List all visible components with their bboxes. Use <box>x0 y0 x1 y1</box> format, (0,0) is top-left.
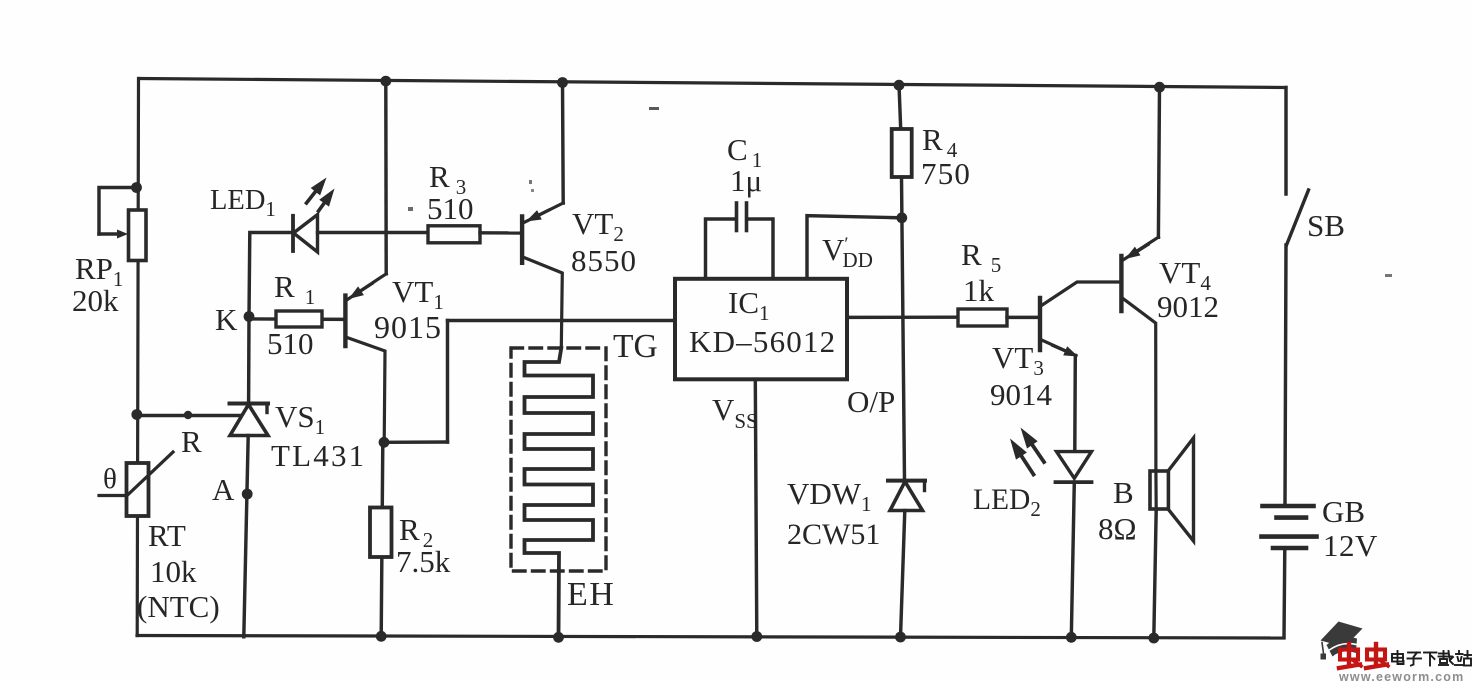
svg-text:K: K <box>215 302 238 337</box>
resistor R5 body <box>958 309 1007 326</box>
svg-text:KD–56012: KD–56012 <box>689 324 836 359</box>
wire SB lower contact <box>1285 245 1286 504</box>
wire speaker to ground <box>1154 510 1156 639</box>
wire VDD prime <box>807 216 902 278</box>
potentiometer RP1 body <box>129 210 147 261</box>
speck 3 <box>1385 274 1392 277</box>
battery GB plate1 long <box>1263 504 1314 509</box>
speaker B box <box>1150 471 1169 509</box>
svg-text:9015: 9015 <box>374 309 442 345</box>
transistor VT4 bar <box>1119 256 1123 311</box>
svg-text:θ: θ <box>103 463 117 495</box>
wire bottom ground rail <box>137 636 1284 639</box>
svg-text:9014: 9014 <box>990 377 1053 412</box>
transistor VT1 collector <box>347 338 385 443</box>
capacitor C1 plates <box>735 203 739 231</box>
node R4 rail junction <box>894 80 905 91</box>
regulator VS1 triangle <box>230 405 268 436</box>
wire VS1 anode to ground <box>244 436 248 637</box>
thermistor RT body <box>127 463 149 516</box>
svg-text:VT1: VT1 <box>392 274 444 314</box>
wire VT3 emitter to LED2 <box>1073 356 1077 452</box>
watermark chongchong char1 <box>1339 644 1361 668</box>
battery GB plate3 long <box>1262 534 1317 539</box>
node VT1 emitter rail junction <box>380 76 391 87</box>
wire battery to ground rail <box>1282 548 1286 638</box>
wire speaker through box <box>1154 471 1157 510</box>
svg-text:O/P: O/P <box>847 384 895 419</box>
node speaker ground junction <box>1148 633 1159 644</box>
watermark graduation cap <box>1321 622 1363 660</box>
svg-text:12V: 12V <box>1323 528 1378 563</box>
svg-text:A: A <box>212 472 235 507</box>
transistor VT3 bar <box>1038 298 1042 350</box>
wire VT4 emitter from rail <box>1158 87 1159 238</box>
zener VDW1 triangle <box>890 482 923 511</box>
svg-text:10k: 10k <box>150 554 197 589</box>
svg-text:510: 510 <box>267 326 314 361</box>
wire R1 leads <box>249 317 345 321</box>
node VT4 rail junction <box>1154 82 1165 93</box>
diode LED1 light arrows <box>307 192 316 203</box>
wire VDW1 anode to ground <box>901 511 905 638</box>
node divider junction <box>131 409 142 420</box>
diode LED1 triangle <box>294 215 318 252</box>
node EH ground junction <box>553 632 564 643</box>
svg-text:20k: 20k <box>72 283 119 318</box>
node VDW1 ground junction <box>895 632 906 643</box>
svg-text:GB: GB <box>1322 494 1365 529</box>
wire LED1 to R3 <box>318 231 429 234</box>
speaker B cone <box>1169 438 1194 541</box>
transistor VT3 collector <box>1042 282 1122 306</box>
node LED2 ground junction <box>1066 632 1077 643</box>
wire C1 right bracket <box>747 219 773 278</box>
svg-text:VSS: VSS <box>712 392 758 433</box>
svg-text:VT2: VT2 <box>572 206 624 246</box>
wire TL431 ref <box>137 414 241 417</box>
diode LED1 cathode bar <box>291 216 295 251</box>
wire TG line to IC1 <box>448 319 676 322</box>
svg-text:9012: 9012 <box>1157 289 1219 324</box>
wire R4 to VDW1 <box>902 177 905 480</box>
svg-text:VT3: VT3 <box>992 340 1044 380</box>
heater EH element <box>525 348 594 637</box>
svg-text:VS1: VS1 <box>275 399 325 439</box>
transistor VT2 collector <box>524 258 562 349</box>
transistor VT2 bar <box>520 217 524 263</box>
svg-text:www.eeworm.com: www.eeworm.com <box>1338 670 1464 681</box>
switch SB blade <box>1287 190 1309 245</box>
wire top supply rail <box>139 79 1286 88</box>
svg-text:1μ: 1μ <box>730 163 762 198</box>
svg-text:SB: SB <box>1307 208 1345 243</box>
wire R3 to VT2 base <box>480 231 522 235</box>
svg-text:R5: R5 <box>961 237 1001 277</box>
node VT1 collector junction <box>379 437 390 448</box>
transistor VT2 emitter <box>524 203 563 223</box>
svg-text:510: 510 <box>427 191 474 226</box>
node R2 ground junction <box>376 631 387 642</box>
node VT2 rail junction <box>557 77 568 88</box>
node ref wire dot <box>184 411 192 419</box>
diode LED2 cathode bar <box>1056 480 1092 484</box>
svg-text:1k: 1k <box>963 273 995 308</box>
transistor VT1 bar <box>343 296 347 347</box>
wire R4 from rail <box>899 85 901 130</box>
resistor R2 body <box>370 508 392 558</box>
svg-text:(NTC): (NTC) <box>137 589 220 624</box>
transistor VT3 emitter <box>1042 340 1077 356</box>
battery GB plate2 short <box>1277 515 1307 520</box>
wire RP1 wiper loop <box>99 188 137 235</box>
ic IC1 box <box>675 279 847 380</box>
speck 4 <box>529 180 532 184</box>
svg-text:V′DD: V′DD <box>822 232 873 272</box>
node RP1 wiper junction <box>131 182 142 193</box>
transistor VT1 emitter <box>347 274 386 300</box>
wire R5 to VT3 base <box>1007 316 1040 319</box>
wire Vss to ground <box>755 380 757 637</box>
node A <box>242 489 253 500</box>
svg-text:R: R <box>181 424 202 459</box>
regulator VS1 cathode bar <box>230 402 269 406</box>
svg-text:7.5k: 7.5k <box>396 544 451 579</box>
potentiometer RP1 wiper arrow <box>99 232 119 235</box>
svg-text:750: 750 <box>921 156 971 191</box>
zener VDW1 cathode bar <box>888 479 925 483</box>
watermark chongchong char2 <box>1366 644 1388 668</box>
svg-text:VDW1: VDW1 <box>787 476 872 516</box>
node Vss ground junction <box>751 631 762 642</box>
svg-text:8Ω: 8Ω <box>1098 511 1137 546</box>
svg-text:LED1: LED1 <box>210 185 276 221</box>
svg-text:TL431: TL431 <box>271 438 366 473</box>
svg-text:EH: EH <box>567 576 615 613</box>
svg-text:LED2: LED2 <box>973 484 1041 521</box>
wire TG riser <box>446 321 449 443</box>
resistor R1 body <box>276 311 322 327</box>
wire O/P output <box>847 315 958 319</box>
wire VT2 emitter from rail <box>561 82 565 203</box>
diode LED2 triangle <box>1057 452 1092 479</box>
heater EH dashed box <box>511 348 606 571</box>
wire R2 leads <box>381 442 383 636</box>
wire K node to LED1 <box>249 233 292 317</box>
resistor R3 body <box>428 226 480 243</box>
thermistor RT diagonal <box>99 452 173 496</box>
wire K to VS1 cathode <box>247 317 251 404</box>
transistor VT4 emitter <box>1123 237 1158 260</box>
speck 1 <box>649 107 659 110</box>
svg-text:RT: RT <box>148 518 186 553</box>
wire SB upper contact <box>1284 88 1287 195</box>
resistor R4 body <box>892 129 912 177</box>
wire VT1 emitter from rail <box>384 80 388 273</box>
svg-text:B: B <box>1113 475 1134 510</box>
wire LED2 to ground <box>1071 482 1074 637</box>
transistor VT4 collector <box>1123 299 1156 472</box>
wire collector junction to TG riser <box>384 440 448 444</box>
svg-text:8550: 8550 <box>571 243 637 278</box>
speck 2 <box>408 207 413 211</box>
svg-text:R1: R1 <box>274 269 315 309</box>
node VDD junction <box>896 212 907 223</box>
svg-text:2CW51: 2CW51 <box>787 518 880 551</box>
diode LED2 light arrows <box>1022 456 1034 474</box>
node K <box>244 311 255 322</box>
battery GB plate4 short <box>1273 546 1306 551</box>
svg-text:TG: TG <box>613 328 658 365</box>
watermark site name 电子下载站 <box>1392 651 1471 666</box>
wire left branch (RP1/RT column) <box>137 79 138 636</box>
wire C1 left bracket <box>706 219 737 278</box>
